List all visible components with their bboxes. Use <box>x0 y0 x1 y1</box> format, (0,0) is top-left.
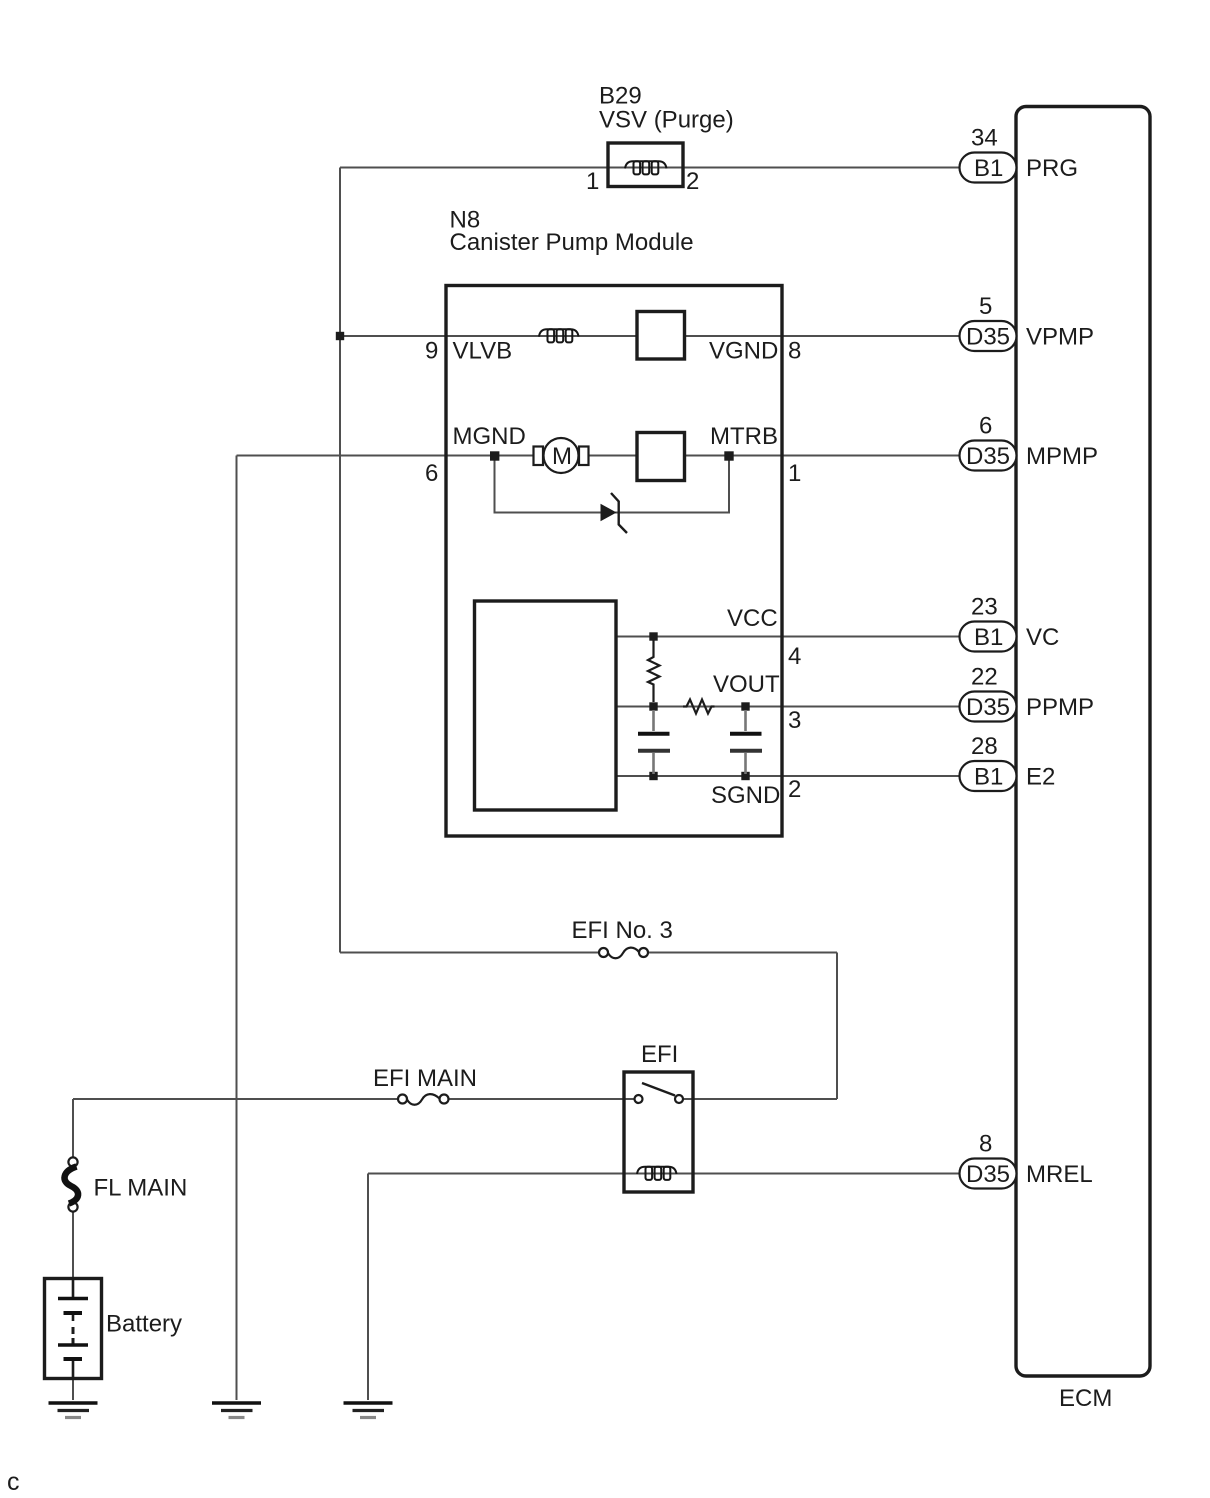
svg-text:1: 1 <box>586 168 599 195</box>
svg-text:3: 3 <box>788 707 801 734</box>
wire battery feed vertical <box>72 1099 74 1157</box>
wire EFI No.3 horizontal <box>340 952 837 954</box>
svg-text:2: 2 <box>788 776 801 803</box>
svg-text:1: 1 <box>788 460 801 487</box>
ground MGND <box>212 1403 261 1418</box>
resistor vertical (VCC to VOUT) <box>648 640 660 702</box>
svg-text:VCC: VCC <box>727 605 778 632</box>
relay switch contacts <box>635 1083 684 1103</box>
svg-text:PRG: PRG <box>1026 155 1078 182</box>
fuse EFI No. 3 <box>599 948 648 959</box>
svg-text:B1: B1 <box>974 155 1003 182</box>
node junction SGND right <box>741 772 749 780</box>
connector oval 6 D35 MPMP <box>960 413 1099 471</box>
svg-text:SGND: SGND <box>711 782 780 809</box>
svg-text:EFI: EFI <box>641 1041 678 1068</box>
connector oval 5 D35 VPMP <box>960 293 1095 351</box>
wire MREL horizontal <box>368 1173 960 1175</box>
connector oval 28 B1 E2 <box>960 733 1056 791</box>
svg-text:PPMP: PPMP <box>1026 694 1094 721</box>
svg-text:VGND: VGND <box>709 338 778 365</box>
canister pump module N8 box <box>446 286 782 837</box>
svg-text:22: 22 <box>971 664 998 691</box>
relay coil <box>637 1167 677 1180</box>
svg-text:4: 4 <box>788 643 801 670</box>
svg-text:D35: D35 <box>966 694 1010 721</box>
wire VC/VCC horizontal <box>616 636 960 638</box>
solenoid valve B29 VSV (Purge) box <box>608 143 683 187</box>
svg-text:MPMP: MPMP <box>1026 443 1098 470</box>
svg-text:VC: VC <box>1026 624 1059 651</box>
wire diode bypass loop <box>495 456 730 513</box>
svg-text:2: 2 <box>686 168 699 195</box>
svg-text:34: 34 <box>971 125 998 152</box>
capacitor left <box>638 710 670 774</box>
motor M symbol <box>534 438 589 473</box>
wire relay switch output to vertical <box>684 1098 838 1100</box>
relay EFI box <box>624 1072 693 1192</box>
svg-text:8: 8 <box>979 1131 992 1158</box>
wire EFI MAIN horizontal left of relay <box>73 1098 634 1100</box>
svg-text:Canister Pump Module: Canister Pump Module <box>450 229 694 256</box>
svg-text:c: c <box>7 1468 20 1496</box>
svg-text:VOUT: VOUT <box>713 671 780 698</box>
wire PPMP/VOUT horizontal <box>616 706 960 708</box>
motor driver block on MTRB line <box>637 433 685 481</box>
wire MREL vertical to ground <box>367 1174 369 1401</box>
connector oval 23 B1 VC <box>960 594 1060 652</box>
wire MPMP/MGND horizontal <box>237 455 960 457</box>
wire vertical from PRG line down to EFI No.3 line <box>339 168 341 953</box>
node junction VCC resistor tap <box>649 632 657 640</box>
capacitor right <box>730 710 762 774</box>
svg-text:B29: B29 <box>599 83 642 110</box>
svg-text:EFI No. 3: EFI No. 3 <box>572 917 673 944</box>
svg-text:B1: B1 <box>974 624 1003 651</box>
fusible link FL MAIN <box>65 1157 79 1211</box>
svg-text:5: 5 <box>979 293 992 320</box>
ECM box <box>1016 107 1150 1377</box>
svg-text:EFI MAIN: EFI MAIN <box>373 1065 477 1092</box>
connector oval 34 B1 PRG <box>960 125 1079 183</box>
connector oval 22 D35 PPMP <box>960 664 1095 722</box>
svg-text:D35: D35 <box>966 324 1010 351</box>
wire vertical EFI No.3 to relay switch <box>836 953 838 1100</box>
wire VPMP horizontal <box>340 335 960 337</box>
svg-text:MTRB: MTRB <box>710 423 778 450</box>
ground relay <box>344 1403 393 1418</box>
fuse EFI MAIN <box>398 1094 449 1105</box>
inductor on VLVB line <box>539 329 579 342</box>
svg-text:FL MAIN: FL MAIN <box>94 1175 188 1202</box>
svg-text:6: 6 <box>425 460 438 487</box>
svg-text:6: 6 <box>979 413 992 440</box>
ground below battery <box>49 1403 98 1418</box>
svg-text:Battery: Battery <box>106 1311 182 1338</box>
svg-text:28: 28 <box>971 733 998 760</box>
battery <box>45 1279 102 1379</box>
node junction MGND <box>490 451 499 460</box>
svg-text:B1: B1 <box>974 764 1003 791</box>
svg-text:VLVB: VLVB <box>453 338 513 365</box>
svg-text:VSV (Purge): VSV (Purge) <box>599 107 734 134</box>
svg-text:9: 9 <box>425 338 438 365</box>
svg-text:E2: E2 <box>1026 764 1055 791</box>
wire battery to ground <box>72 1377 74 1400</box>
pressure sensor box <box>475 601 617 810</box>
wire PRG horizontal <box>340 167 960 169</box>
svg-text:D35: D35 <box>966 1161 1010 1188</box>
svg-text:D35: D35 <box>966 443 1010 470</box>
svg-text:23: 23 <box>971 594 998 621</box>
node junction MTRB <box>724 451 733 460</box>
valve block on VLVB line <box>637 312 685 360</box>
node junction SGND left <box>649 772 657 780</box>
resistor horizontal (VOUT line) <box>683 700 715 714</box>
node junction VOUT right <box>741 702 749 710</box>
svg-text:8: 8 <box>788 338 801 365</box>
wire fusible link to battery <box>72 1212 74 1280</box>
coil inside VSV <box>625 161 667 174</box>
svg-text:ECM: ECM <box>1059 1385 1112 1412</box>
node junction VOUT left <box>649 702 657 710</box>
zener diode across motor <box>601 493 628 533</box>
svg-text:M: M <box>552 443 572 470</box>
wire MGND vertical to ground <box>236 456 238 1401</box>
node junction VPMP/B feed <box>336 332 344 340</box>
svg-text:MGND: MGND <box>453 423 526 450</box>
connector oval 8 D35 MREL <box>960 1131 1093 1189</box>
svg-text:VPMP: VPMP <box>1026 324 1094 351</box>
wire E2/SGND horizontal <box>616 775 960 777</box>
svg-text:MREL: MREL <box>1026 1161 1093 1188</box>
